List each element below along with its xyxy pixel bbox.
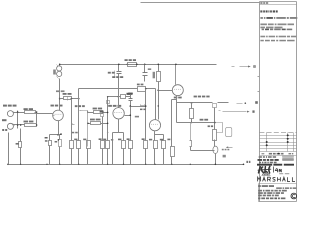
wire V2a cathode drop: [176, 96, 178, 123]
label C5 value: [148, 68, 151, 70]
wire jack shunt vertical: [17, 111, 19, 129]
off-page top arrowhead: [248, 66, 251, 68]
label R24 value: [83, 139, 86, 141]
drawing number text: [259, 156, 276, 158]
capacitor C1 coupling: [64, 97, 72, 100]
off-page top dash: [232, 66, 235, 68]
label R4 100k: [53, 70, 56, 75]
jack J1 tip contact: [13, 112, 15, 113]
wire J2 to R2: [14, 124, 25, 126]
valve V2b envelope: [149, 120, 160, 131]
wire output top horizontal: [172, 99, 177, 101]
wire C5 upper lead: [144, 65, 146, 73]
resistor R14 series 220k: [138, 87, 146, 92]
resistor R7 pot ground leg: [77, 141, 81, 149]
label mixer dashes: [72, 132, 78, 134]
wire R19 to ground: [163, 149, 165, 165]
border column left edge: [259, 2, 261, 202]
junction at R3 drop: [20, 124, 22, 126]
junction at C1 output: [71, 98, 73, 100]
resistor R8: [94, 111, 103, 114]
resistor R20 V2 anode: [157, 72, 161, 82]
label R12 value: [118, 139, 121, 141]
wire V1 anode to C1: [60, 98, 64, 100]
marshall script logo: [258, 166, 271, 173]
MARSHALL wordmark: [258, 177, 295, 181]
jack J1: [7, 111, 13, 117]
address box top rule: [259, 183, 297, 185]
border column right edge: [296, 2, 298, 202]
wire C6 lower lead: [190, 147, 192, 151]
wire V1 cathode drop: [58, 121, 60, 135]
resistor R3 1M: [19, 142, 22, 148]
revision table rule 6: [260, 151, 297, 153]
resistor R1: [25, 111, 36, 114]
wire C2 to ground: [59, 147, 61, 165]
junction ground bus 1: [20, 164, 21, 165]
junction C3 tone tap: [130, 105, 132, 107]
wire grid line horizontal: [108, 96, 119, 98]
resistor R10 grid stopper: [121, 95, 126, 99]
revision mark dot row1: [287, 134, 289, 136]
revision table divider far right: [293, 133, 295, 152]
junction grid node bottom: [36, 124, 38, 126]
wire C3 upper lead: [130, 95, 132, 99]
junction V2b plate mid: [158, 105, 159, 106]
revision table rule 5: [260, 148, 297, 150]
off-page arrow P dot: [245, 102, 247, 104]
notes box top line: [260, 1, 297, 3]
wire tone drop vertical: [145, 89, 147, 141]
potentiometer VR1 wiper arrow: [80, 110, 83, 112]
wire V2b grid corner drop: [155, 89, 157, 120]
tone pot box: [101, 114, 104, 117]
label R9 470k: [90, 119, 101, 121]
revision mark dot row3: [266, 141, 268, 143]
resistor R24 drop: [87, 141, 91, 149]
wire R5 to ground: [49, 146, 51, 165]
valve V2b heater dashes: [151, 123, 159, 125]
label off-page P: [255, 101, 258, 104]
capacitor C4b mark: [114, 71, 116, 77]
label R5 value b: [45, 140, 48, 142]
junction bus at series resistor left: [127, 64, 129, 66]
capacitor C5 plate bottom: [143, 75, 148, 77]
wire R10 to C3 node: [126, 96, 131, 98]
resistor R18 cathode: [154, 141, 158, 149]
off-page arrow mid stub: [219, 110, 221, 112]
resistor R11 lower drop: [106, 141, 110, 149]
separator dashed dark row: [257, 164, 294, 166]
resistor R19 tail: [162, 141, 166, 149]
valve V1 heater dashes: [55, 113, 62, 115]
wire C1 to volume pot: [72, 98, 79, 100]
junction C7 at ground bus: [215, 164, 217, 166]
fold mark B on border: [258, 76, 260, 78]
wire R20 top to bus: [158, 65, 160, 72]
wire V3 cathode right leg: [123, 133, 125, 141]
capacitor C4 decoupling plate bottom: [117, 73, 122, 75]
label R23 value: [208, 125, 214, 127]
label R17 value: [99, 138, 102, 140]
wire wiper to R6: [88, 111, 94, 113]
checked cell text: [269, 153, 284, 155]
wire V3 cathode split: [113, 132, 124, 134]
wire C3 lower lead: [130, 101, 132, 141]
fold mark C on border: [258, 91, 260, 93]
resistor R5 cathode: [49, 141, 52, 146]
notes box header rule: [260, 4, 297, 6]
junction C3 tap: [130, 114, 132, 116]
wire R4 to HT bus: [59, 65, 61, 67]
label C7 marks: [222, 149, 229, 151]
junction output at R22: [191, 102, 193, 104]
junction R22 at feedback line: [191, 122, 193, 124]
valve V1 grid pin tick: [53, 115, 55, 117]
wire VR1 bottom drop: [78, 127, 80, 141]
label R16 value: [127, 138, 130, 140]
capacitor C5 plate top: [143, 72, 148, 74]
junction mid-low crossing: [107, 132, 108, 133]
note line 1 FOR F40: [260, 10, 277, 12]
junction wiper node: [107, 96, 108, 97]
capacitor C6 polarised curls: [190, 141, 192, 147]
resistor R4 anode upper section: [57, 66, 62, 71]
logo right dashes: [279, 172, 289, 175]
resistor VR2 ground leg: [70, 141, 74, 149]
label bottom r20 value: [74, 139, 77, 141]
wire grid to V1: [37, 113, 53, 115]
junction bus at series resistor right: [136, 64, 138, 66]
label R2 68k: [24, 121, 34, 123]
valve V1 envelope: [53, 110, 64, 121]
capacitor C4 decoupling plate top: [117, 71, 122, 73]
tm line right text: [276, 187, 296, 189]
grid stopper blob: [107, 101, 110, 104]
wire V2b cathode drop: [154, 131, 156, 141]
capacitor C2 polarity tick: [58, 139, 60, 141]
junction ground bus 2: [46, 164, 47, 165]
wire R18 to ground: [154, 149, 156, 165]
node 0V label: [246, 161, 250, 163]
copyright C glyph: [292, 195, 295, 198]
label mid network 470k: [112, 76, 123, 78]
logo amps underline text: [262, 174, 269, 175]
wire C5 lower lead: [144, 76, 146, 82]
resistor R17 tone pot leg: [101, 141, 105, 149]
label C2 value: [55, 141, 58, 143]
wire output stub right: [218, 102, 229, 104]
junction ground bus 10: [190, 164, 191, 165]
wire jack ground drop: [8, 133, 10, 165]
capacitor C1 inner line: [67, 97, 69, 101]
revision table rule 2: [260, 138, 297, 140]
wire C6 to cap node: [191, 150, 215, 152]
wire plate node horizontal: [159, 90, 173, 92]
wire mid node vertical: [107, 97, 109, 141]
revision table rule 3: [260, 142, 297, 144]
junction ground bus 6: [123, 164, 124, 165]
label link: [2, 119, 7, 121]
label Rb 68k: [56, 90, 65, 92]
jack J2: [7, 123, 13, 129]
junction mid node lower: [107, 123, 109, 125]
label R20 100k: [153, 72, 155, 79]
junction jack shunt bottom: [17, 124, 19, 126]
wire R1 to grid node: [35, 112, 37, 114]
note line 5: [262, 29, 293, 31]
electrolytic C7 oval: [213, 146, 218, 153]
label R21 value: [167, 139, 170, 141]
label preamp 1: [108, 105, 121, 107]
junction at volume pot top: [78, 98, 80, 100]
junction V2b plate at y90: [157, 89, 159, 91]
wire cathode left leg: [49, 135, 51, 141]
wire grid line to R10: [119, 96, 121, 98]
wire R3 to ground: [20, 148, 22, 165]
junction cathode split: [57, 134, 58, 135]
resistor R12 cathode: [122, 141, 126, 149]
note line 4: [260, 27, 282, 29]
logo amps underline: [262, 175, 271, 177]
label V2a grid: [174, 97, 182, 99]
wire R8 to node: [103, 112, 108, 114]
ground bus start junction: [7, 164, 9, 166]
wire HT supply bus: [60, 64, 217, 66]
resistor R4 bottom tick: [57, 77, 59, 79]
label C4 47u: [108, 72, 115, 74]
label C1 22n: [63, 93, 72, 95]
wire V1 anode riser: [59, 79, 61, 111]
wire tone slope horizontal: [131, 106, 146, 108]
valve V3 heater dots: [114, 112, 123, 114]
wire main output drop: [214, 108, 216, 130]
wire R11 to ground: [107, 149, 109, 165]
off-page arrow mid head: [247, 111, 250, 113]
junction ground bus 5: [107, 164, 108, 165]
revision mark dot row2: [287, 138, 289, 140]
approved cell text: [289, 153, 294, 154]
wire grid node vertical: [36, 113, 38, 125]
junction C4 at bus: [118, 64, 120, 66]
valve V3 envelope: [113, 108, 124, 119]
junction V3 grid: [118, 96, 120, 98]
jack J2 tip contact: [13, 124, 15, 126]
logo separator bar: [273, 167, 275, 173]
note line 6: [260, 36, 296, 38]
copyright symbol: [291, 193, 297, 199]
label R15 value: [142, 138, 145, 140]
title row rule: [260, 155, 297, 157]
wire tone pot drop: [102, 117, 104, 141]
revision mark dot row4: [266, 144, 268, 146]
junction R20 at bus: [158, 64, 160, 66]
wire C4 lower lead: [118, 74, 120, 77]
arrow into ground area: [227, 147, 233, 149]
resistor R13 bus dropper: [128, 63, 137, 67]
sheet top border: [141, 2, 260, 4]
wire lower tap to R9: [88, 123, 91, 125]
revision table divider right: [287, 133, 289, 152]
revision table divider left: [266, 133, 268, 152]
ground bus end junction: [243, 164, 245, 166]
junction bus at C5: [144, 64, 146, 66]
address line 4: [258, 198, 285, 200]
label preamp 2: [75, 105, 85, 107]
wire V2a output corner: [171, 100, 173, 147]
label R18 value: [149, 139, 152, 141]
label output 100k pair: [194, 96, 210, 98]
potentiometer VR1 track: [78, 89, 80, 127]
wire R14 to V2 grid corner: [146, 88, 156, 90]
label R5 value: [45, 137, 48, 139]
valve V2a envelope: [172, 85, 183, 96]
address line 1: [258, 190, 287, 192]
label feedback value: [200, 119, 209, 121]
arrow into ground head: [226, 146, 228, 148]
wire J1 to R1: [14, 112, 25, 114]
note line 3: [260, 24, 294, 26]
resistor R9: [91, 122, 101, 125]
wire wiper branch drop: [87, 113, 89, 147]
connector box at output line: [213, 104, 217, 108]
junction ground bus 7: [145, 164, 146, 165]
label R3 1M: [16, 143, 19, 145]
junction tone drop at R14: [145, 88, 147, 90]
wire treble feed horizontal: [79, 88, 138, 90]
wire R20 bottom to plate node: [158, 82, 160, 91]
capacitor tone slope marks: [141, 105, 145, 106]
wire R15 to ground: [145, 149, 147, 165]
junction tone slope at drop: [145, 105, 147, 107]
junction mid node upper: [107, 112, 109, 114]
junction cathode split right: [60, 133, 62, 135]
drawn cell dash: [262, 153, 265, 154]
wire R17 to ground: [102, 149, 104, 165]
label C7 marks2: [223, 155, 226, 158]
issue row text: [258, 159, 279, 161]
checked cell dark dot: [278, 153, 280, 155]
revision table rule 1: [260, 135, 297, 137]
wire output dashes: [237, 103, 243, 105]
resistor R21 drop: [171, 147, 175, 157]
wire V3 anode riser: [118, 77, 120, 108]
wire V2b plate riser: [158, 91, 160, 120]
revision mark dot row3b: [287, 141, 289, 143]
junction wiper lower tap: [87, 123, 89, 125]
resistor R16 drop: [129, 141, 133, 149]
wire cathode split horizontal: [50, 134, 62, 136]
junction V1 anode tap: [59, 98, 61, 100]
hook loop output: [215, 123, 223, 133]
off-page top wire: [240, 66, 249, 68]
potentiometer VR2 wiper arrow: [73, 124, 75, 125]
resistor R22 vertical: [190, 109, 194, 119]
connector outline box: [226, 128, 232, 137]
address box left edge: [258, 184, 260, 202]
resistor R2: [25, 124, 37, 127]
junction V2a anode at bus: [175, 64, 177, 66]
label R11 value: [103, 139, 106, 141]
label tone slope: [140, 109, 146, 111]
wire VR1 wiper lead: [83, 110, 88, 112]
note line 2: [260, 17, 297, 19]
wire cathode right leg: [59, 135, 61, 140]
label R14 220k: [137, 84, 144, 86]
note line 7 legend symbols: [260, 40, 294, 42]
wire output node horizontal: [177, 102, 213, 104]
valve V2a heater dashes: [174, 88, 181, 90]
revision table rule 4: [260, 145, 297, 147]
wire tail resistor drop: [163, 135, 165, 141]
wire C7 to ground: [215, 154, 217, 165]
label R19 value: [160, 139, 163, 141]
wire R3 drop from jacks: [20, 129, 22, 142]
wire R24 to ground: [87, 149, 89, 165]
wire C3 tap to V3 anode side: [125, 115, 131, 117]
wire R9 to node: [101, 123, 108, 125]
resistor R23 vertical: [213, 130, 217, 141]
capacitor C2 cathode bypass: [59, 140, 62, 147]
wire R16 to ground: [130, 149, 132, 165]
wire R22 lower lead: [191, 119, 193, 123]
address line 3: [258, 195, 279, 197]
label tone pot: [100, 111, 104, 113]
junction wiper upper node: [87, 112, 88, 113]
capacitor C3 plate bottom: [129, 100, 133, 102]
wire feedback horizontal: [177, 122, 215, 124]
drawing number right blob: [283, 156, 294, 158]
junction ground bus 9: [171, 164, 172, 165]
wire V2 cathode link: [155, 134, 164, 136]
label R8 470k: [93, 108, 103, 110]
label V1 designation: [51, 105, 63, 107]
label input low: [2, 129, 7, 131]
wire V2a anode riser: [175, 65, 177, 85]
wire ground bus: [9, 164, 244, 166]
label near C3 tap: [135, 116, 139, 118]
issue row right blob: [283, 159, 294, 161]
resistor R4 anode lower section: [57, 71, 62, 76]
wire C6 upper lead: [190, 123, 192, 141]
capacitor C3 plate top: [129, 98, 133, 100]
junction grid node top: [36, 111, 38, 113]
resistor R4 top tick: [57, 65, 59, 67]
wire VR2 to ground: [71, 149, 73, 165]
junction ground bus 8: [154, 164, 155, 165]
wire R22 upper lead: [191, 103, 193, 109]
label C3 value: [128, 93, 133, 95]
junction main drop at feedback: [214, 122, 216, 124]
logo 4M text: [275, 168, 281, 172]
date row text: [259, 162, 277, 164]
label R10 value: [127, 93, 132, 95]
wire V3 cathode drop: [118, 119, 120, 133]
junction ground bus 4: [78, 164, 79, 165]
potentiometer VR2 track: [71, 99, 73, 141]
label R13 10k: [125, 59, 137, 61]
wire R21 to ground: [171, 157, 173, 165]
title block top dashed line: [259, 131, 297, 133]
wire C4 to bus: [118, 65, 120, 72]
label R1 68k: [24, 108, 34, 110]
wire V3 cathode left leg: [112, 133, 114, 165]
wire R12 to ground: [123, 149, 125, 165]
tm line text: [258, 185, 274, 187]
label input channel: [3, 105, 17, 107]
junction V1 anode at bus: [59, 64, 61, 66]
resistor R15 tone drop: [144, 141, 148, 149]
